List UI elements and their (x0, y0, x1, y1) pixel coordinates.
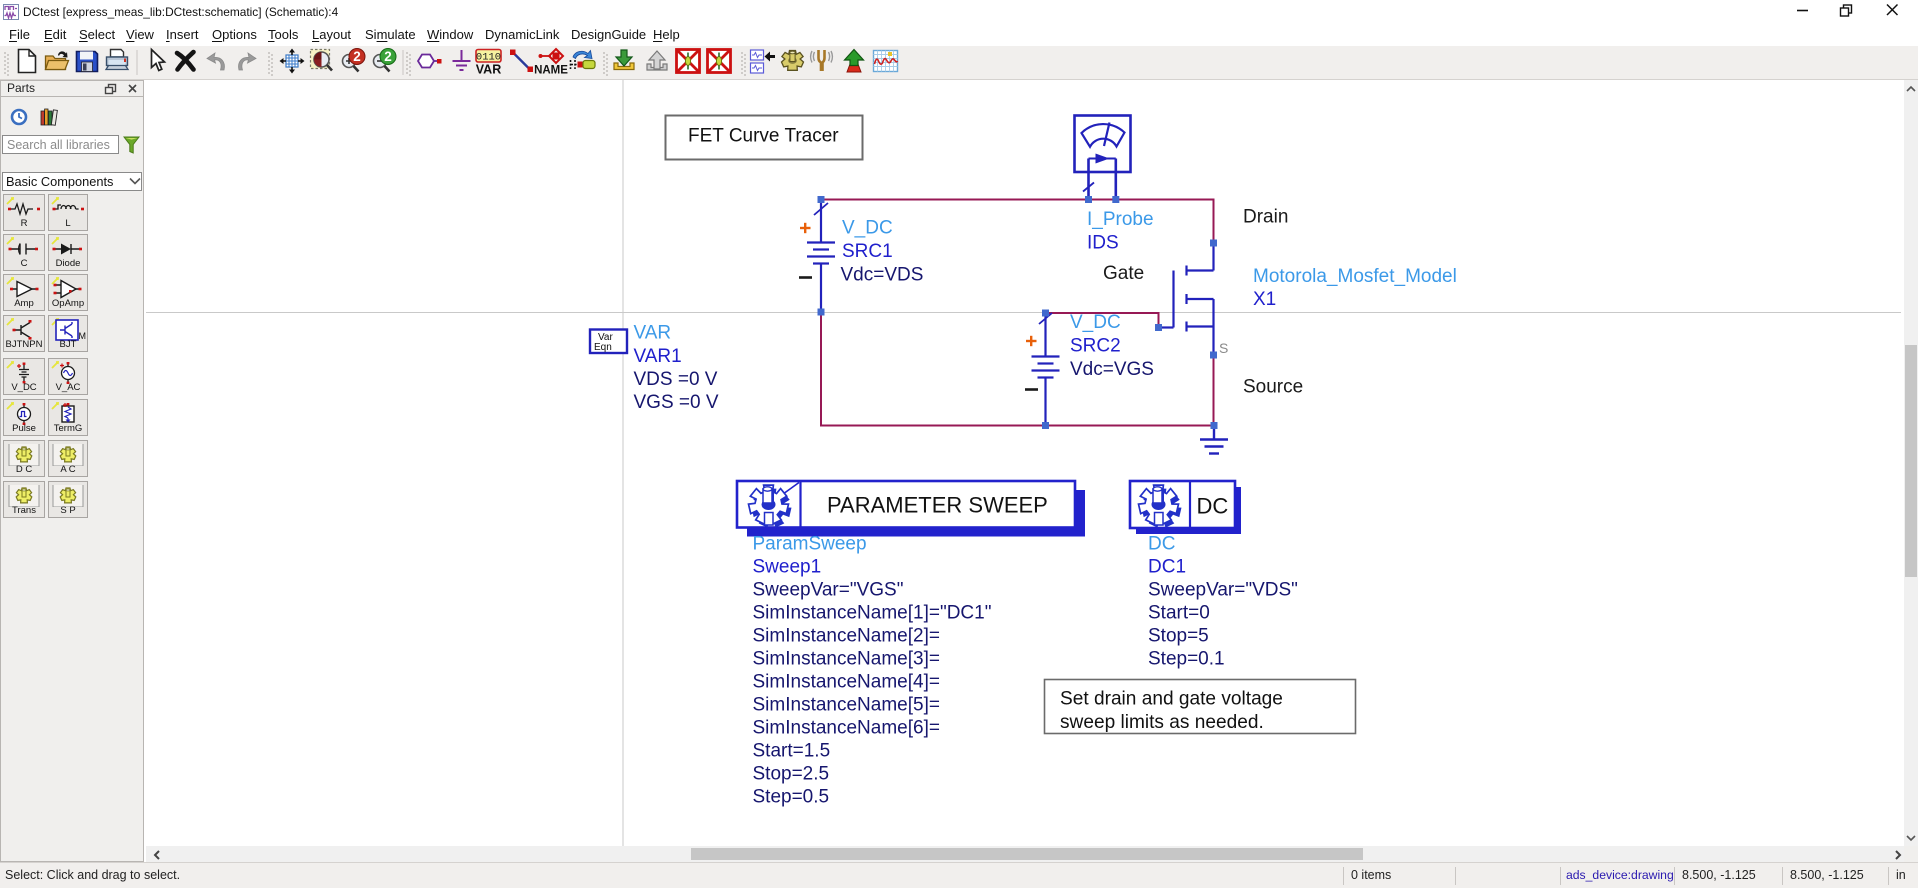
svg-text:sweep limits as needed.: sweep limits as needed. (1060, 712, 1264, 733)
library books icon (40, 108, 60, 126)
svg-text:S: S (1219, 340, 1228, 356)
gear icon DC (1139, 485, 1182, 527)
svg-text:V_DC: V_DC (1070, 312, 1121, 333)
svg-text:Source: Source (1243, 377, 1303, 398)
svg-text:SRC2: SRC2 (1070, 336, 1121, 357)
sheet horizontal line (146, 312, 1901, 314)
svg-text:SweepVar="VGS": SweepVar="VGS" (753, 580, 904, 601)
gear icon ParamSweep (749, 485, 792, 527)
svg-text:VDS =0 V: VDS =0 V (634, 369, 718, 390)
DC controller block (1130, 481, 1241, 534)
toolbar (0, 46, 1918, 80)
status bar (0, 862, 1918, 888)
svg-text:SimInstanceName[2]=: SimInstanceName[2]= (753, 626, 940, 647)
node junction SRC2 minus pin (1042, 422, 1049, 429)
svg-text:Step=0.1: Step=0.1 (1148, 649, 1225, 670)
horizontal scrollbar (146, 846, 1904, 862)
node junction SRC1 minus pin (818, 309, 825, 316)
svg-text:Step=0.5: Step=0.5 (753, 787, 830, 808)
plus sign SRC1 (800, 223, 811, 233)
vertical scrollbar (1904, 80, 1918, 846)
svg-text:VAR1: VAR1 (634, 346, 682, 367)
dc voltage source SRC1 symbol (807, 199, 835, 312)
node junction X1 gate (1155, 324, 1162, 331)
menu bar (0, 24, 1918, 46)
svg-text:Stop=5: Stop=5 (1148, 626, 1209, 647)
svg-text:Drain: Drain (1243, 207, 1288, 228)
FET Curve Tracer title box (666, 116, 863, 160)
sheet vertical line (622, 80, 624, 846)
search filter funnel (123, 136, 140, 154)
wire top net (821, 200, 1214, 244)
svg-text:DC: DC (1197, 494, 1229, 519)
wire gate net (1046, 313, 1159, 328)
canvas (145, 80, 1904, 846)
combo chevron (129, 177, 141, 185)
svg-text:SimInstanceName[3]=: SimInstanceName[3]= (753, 649, 940, 670)
svg-text:I_Probe: I_Probe (1087, 209, 1154, 230)
wire left net (821, 312, 1214, 426)
transistor X1 MOSFET symbol (1159, 243, 1214, 355)
svg-text:DC: DC (1148, 534, 1175, 555)
svg-text:SimInstanceName[5]=: SimInstanceName[5]= (753, 695, 940, 716)
svg-text:Vdc=VGS: Vdc=VGS (1070, 359, 1154, 380)
VAR equation block (590, 330, 627, 354)
title bar (0, 0, 1918, 24)
minus sign SRC1 (799, 276, 812, 279)
svg-text:FET Curve Tracer: FET Curve Tracer (688, 126, 839, 147)
dc voltage source SRC2 symbol (1032, 313, 1060, 426)
node junction X1 source S (1210, 352, 1217, 359)
wire source net (1213, 355, 1215, 426)
node junction I_Probe left pin (1085, 196, 1092, 203)
svg-text:VAR: VAR (634, 323, 672, 344)
node junction ground net (1211, 422, 1218, 429)
svg-text:ParamSweep: ParamSweep (753, 534, 867, 555)
svg-text:Start=1.5: Start=1.5 (753, 741, 831, 762)
svg-text:SweepVar="VDS": SweepVar="VDS" (1148, 580, 1298, 601)
svg-text:SRC1: SRC1 (842, 241, 893, 262)
current probe IDS meter symbol (1075, 116, 1131, 200)
parts panel (0, 80, 144, 862)
clock icon (10, 108, 28, 126)
panel float/close buttons (104, 83, 140, 95)
note box (1045, 680, 1356, 734)
svg-text:SimInstanceName[1]="DC1": SimInstanceName[1]="DC1" (753, 603, 992, 624)
plus sign SRC2 (1026, 336, 1037, 346)
svg-text:Sweep1: Sweep1 (753, 557, 822, 578)
svg-text:Set drain and gate voltage: Set drain and gate voltage (1060, 689, 1283, 710)
svg-text:Gate: Gate (1103, 263, 1144, 284)
svg-text:SimInstanceName[4]=: SimInstanceName[4]= (753, 672, 940, 693)
svg-text:V_DC: V_DC (842, 218, 893, 239)
svg-text:VGS =0 V: VGS =0 V (634, 392, 719, 413)
svg-text:Eqn: Eqn (594, 342, 612, 353)
svg-text:PARAMETER SWEEP: PARAMETER SWEEP (827, 493, 1048, 518)
svg-text:Motorola_Mosfet_Model: Motorola_Mosfet_Model (1253, 266, 1457, 287)
node junction SRC1 plus pin (818, 196, 825, 203)
svg-text:Stop=2.5: Stop=2.5 (753, 764, 830, 785)
ground (1200, 426, 1228, 454)
svg-text:SimInstanceName[6]=: SimInstanceName[6]= (753, 718, 940, 739)
svg-text:DC1: DC1 (1148, 557, 1186, 578)
node junction I_Probe right pin (1112, 196, 1119, 203)
minus sign SRC2 (1025, 388, 1038, 391)
PARAMETER SWEEP controller block (737, 481, 1085, 537)
svg-text:X1: X1 (1253, 289, 1276, 310)
svg-text:IDS: IDS (1087, 233, 1119, 254)
svg-text:Start=0: Start=0 (1148, 603, 1210, 624)
node junction X1 drain (1210, 240, 1217, 247)
svg-text:Vdc=VDS: Vdc=VDS (841, 265, 924, 286)
node junction SRC2 plus pin (1042, 310, 1049, 317)
